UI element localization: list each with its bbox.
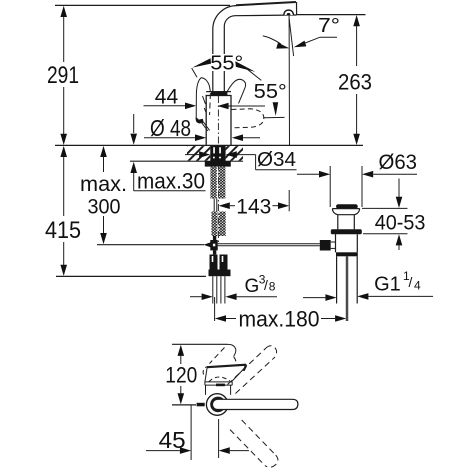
lever head <box>205 367 246 385</box>
head black mark <box>216 384 225 387</box>
max.30 dimension (counter thickness) <box>130 114 205 194</box>
7 deg detail: vertical line from spout tip to counter <box>288 16 290 146</box>
120 dimension <box>165 345 197 405</box>
7 deg tilted line <box>289 19 293 56</box>
svg-text:7°: 7° <box>318 14 340 37</box>
wedge arrow left <box>192 58 211 67</box>
svg-text:40-53: 40-53 <box>375 211 426 234</box>
drain tailpipe <box>336 256 338 303</box>
pop-up rod stem <box>213 236 216 243</box>
drain rod attachment square <box>320 240 331 251</box>
svg-text:415: 415 <box>45 217 81 244</box>
120 top extension line <box>172 343 227 345</box>
svg-text:max.30: max.30 <box>137 169 205 194</box>
55 deg label 2 <box>254 80 287 118</box>
svg-text:8: 8 <box>269 280 276 294</box>
svg-text:4: 4 <box>414 279 421 293</box>
svg-text:Ø 48: Ø 48 <box>150 115 191 141</box>
svg-text:Ø63: Ø63 <box>379 151 418 174</box>
max.180 dimension <box>215 297 347 332</box>
dashed head (up position) cap <box>227 344 236 356</box>
shank below nut <box>210 167 216 199</box>
44 dimension <box>144 85 266 109</box>
body circle ring <box>212 398 224 410</box>
drain body <box>335 234 337 252</box>
spout tip projection below counter <box>288 190 290 211</box>
mounting nut <box>205 161 231 166</box>
body centerline <box>217 96 219 243</box>
hose pipes in gap <box>213 199 215 212</box>
aerator at spout tip <box>284 10 294 15</box>
pivot pin tick <box>197 403 205 407</box>
counter cross-section hatch left <box>187 146 210 161</box>
dashed lever up <box>228 346 277 394</box>
wedge arrow right <box>235 61 255 72</box>
55 deg label 1 <box>192 52 262 81</box>
rod clamp square <box>210 240 217 250</box>
rod stem lower <box>213 250 216 254</box>
hose nuts <box>210 255 218 270</box>
counter cross-section hatch right <box>226 146 243 161</box>
svg-text:/: / <box>409 274 413 290</box>
svg-text:291: 291 <box>47 62 79 89</box>
291 dimension <box>47 6 79 145</box>
415 dimension <box>45 146 81 276</box>
G1 1/4 dimension <box>303 269 433 301</box>
lever lower edge lines <box>200 120 208 131</box>
263 dimension <box>297 15 373 145</box>
lever inner dashes <box>203 96 207 113</box>
spout tip right edge <box>296 2 298 15</box>
max.300 bottom reference line (rod level) <box>97 244 204 246</box>
143 dimension <box>219 195 290 219</box>
svg-text:120: 120 <box>165 363 197 388</box>
drain neck <box>337 215 339 230</box>
svg-text:Ø34: Ø34 <box>257 149 296 171</box>
body block <box>206 385 231 395</box>
G 3/8 dimension <box>190 273 277 301</box>
svg-text:G1: G1 <box>374 274 401 296</box>
svg-text:max.180: max.180 <box>239 307 320 332</box>
diameter 34 dimension <box>185 149 297 171</box>
faucet body <box>206 96 231 146</box>
hose blocks below gap <box>211 212 217 237</box>
diameter 63 dimension <box>297 151 417 207</box>
drain plug cap <box>336 204 358 208</box>
top reference line (spout top level) <box>55 4 230 6</box>
svg-text:/: / <box>264 277 268 293</box>
svg-text:45: 45 <box>159 427 186 453</box>
wedge arrow down <box>273 102 279 116</box>
lever dashed loop (right position) <box>232 109 264 128</box>
7 deg arc with arrow <box>263 36 281 44</box>
120 bottom extension line <box>172 404 196 406</box>
svg-text:300: 300 <box>88 195 121 219</box>
lever left loop (up position) <box>196 78 210 119</box>
spout inner profile <box>224 15 296 54</box>
svg-text:263: 263 <box>338 70 372 95</box>
body circle outer <box>206 394 228 416</box>
hose tails <box>212 276 214 303</box>
rod lines to drain <box>218 243 320 245</box>
threaded shank through counter <box>210 146 225 161</box>
lever right loop (up-right position) <box>226 79 246 103</box>
diameter 48 dimension <box>144 115 260 141</box>
7 deg leader <box>298 37 338 46</box>
45 dimension <box>146 405 249 460</box>
counter bottom line <box>130 160 243 162</box>
svg-text:G: G <box>245 276 260 297</box>
lever top edge (plan/side) <box>207 365 246 371</box>
counter top line <box>55 144 363 146</box>
hose nut bottom band <box>209 270 231 277</box>
spout outer profile <box>213 6 237 54</box>
dashed lever down <box>230 420 278 467</box>
dashed arc left of head <box>203 367 207 375</box>
svg-text:max.: max. <box>80 173 127 196</box>
lever bar <box>212 399 298 409</box>
rod left diamond tip <box>204 242 211 247</box>
415 bottom reference line (hose ends) <box>56 275 206 277</box>
svg-text:44: 44 <box>155 85 179 108</box>
drain gasket <box>331 229 362 234</box>
spout top edge <box>236 2 296 5</box>
svg-text:143: 143 <box>236 195 271 219</box>
svg-text:55°: 55° <box>254 80 287 103</box>
40-53 dimension <box>362 179 425 251</box>
body top cap band <box>211 92 227 96</box>
pop-up rod in tailpipe <box>345 256 347 321</box>
lever hook (grip end) <box>196 117 204 124</box>
dashed arc in head <box>209 377 230 382</box>
drain lower band <box>336 252 358 256</box>
drain flange <box>332 209 359 215</box>
max.300 dimension <box>80 146 127 244</box>
